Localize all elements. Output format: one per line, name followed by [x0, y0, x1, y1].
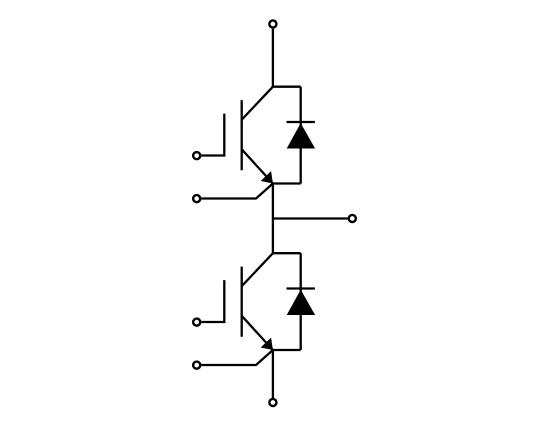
diode D2 cathode bar [287, 287, 315, 289]
wire: node B2 down to terminal N [272, 350, 274, 398]
terminal P (top collector terminal) [269, 20, 276, 27]
wire: node B1 down to node A2 (midpoint bus) [272, 184, 274, 254]
terminal N (bottom emitter terminal) [269, 399, 276, 406]
diode D1 triangle (anode, pointing up) [287, 123, 315, 148]
terminal E2 (auxiliary emitter of Q2) [193, 362, 200, 369]
wire: auxiliary emitter lead of Q2 [201, 350, 273, 365]
transistor Q2 gate bar and lead [201, 280, 224, 322]
diode D2 triangle (anode, pointing up) [287, 290, 315, 315]
transistor Q1 emitter diagonal [242, 149, 273, 183]
wire: diode D2 branch vertical [300, 253, 302, 350]
wire: diode D1 branch vertical [300, 87, 302, 184]
terminal G1 (gate of Q1) [193, 152, 200, 159]
transistor Q2 emitter arrowhead [261, 338, 273, 350]
transistor Q1 emitter arrowhead [261, 171, 273, 183]
transistor Q1 collector diagonal [242, 87, 273, 120]
wire: midpoint output tap [273, 217, 348, 219]
diode D1 cathode bar [287, 121, 315, 123]
terminal G2 (gate of Q2) [193, 319, 200, 326]
transistor Q2 emitter diagonal [242, 316, 273, 350]
transistor Q1 body bar [241, 100, 243, 170]
wire: terminal P down to node A1 and over to diode D1 cathode branch [273, 29, 301, 87]
transistor Q2 collector diagonal [242, 253, 273, 286]
wire: node B1 to diode D1 anode [273, 182, 301, 184]
wire: auxiliary emitter lead of Q1 [201, 184, 273, 199]
wire: node A2 over to diode D2 cathode branch [273, 252, 301, 254]
transistor Q2 body bar [241, 267, 243, 337]
terminal E1 (auxiliary emitter of Q1) [193, 195, 200, 202]
wire: node B2 to diode D2 anode [273, 349, 301, 351]
terminal OUT (phase output) [349, 215, 356, 222]
transistor Q1 gate bar and lead [201, 114, 224, 156]
